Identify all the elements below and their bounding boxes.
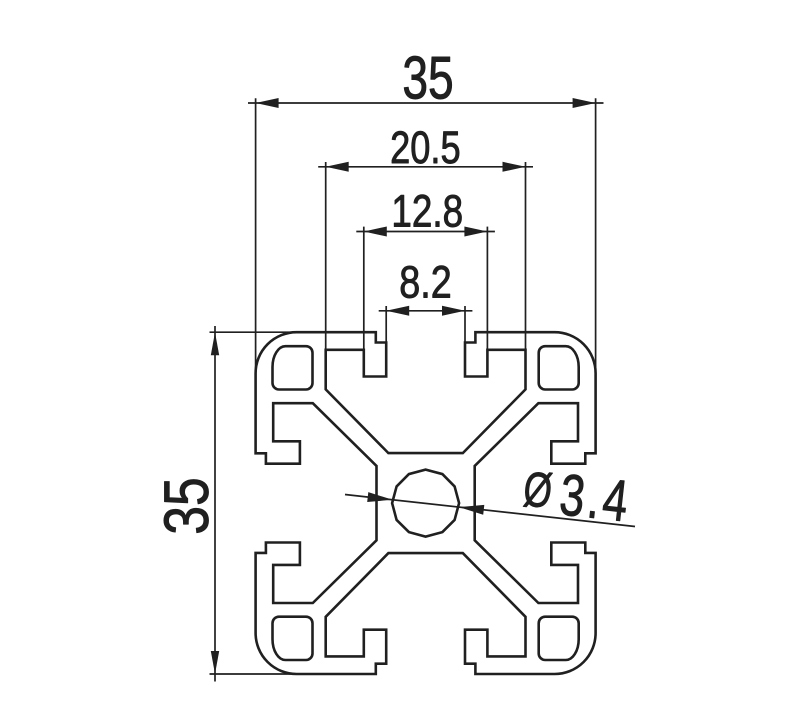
leader line dia 3.4 — [345, 495, 635, 527]
dim line 35 left — [214, 326, 216, 682]
arrow 12.8 right — [464, 227, 487, 237]
dim line 35 top — [248, 102, 604, 104]
svg-text:12.8: 12.8 — [391, 186, 463, 236]
ext line 35 top left — [255, 98, 257, 374]
arrow dia right — [459, 505, 484, 515]
svg-text:35: 35 — [402, 46, 453, 112]
corner hole bottom-left — [273, 617, 313, 660]
arrow 35 left bottom — [211, 651, 219, 674]
svg-text:3.4: 3.4 — [557, 463, 635, 536]
arrow 20.5 right — [503, 162, 526, 172]
svg-text:35: 35 — [152, 477, 222, 534]
arrow 20.5 left — [326, 162, 349, 172]
dim line 8.2 — [379, 310, 473, 312]
dim line 20.5 — [318, 166, 533, 168]
arrow 8.2 left — [386, 306, 409, 316]
arrow dia left — [367, 492, 392, 502]
ext line 35 top right — [595, 98, 597, 374]
profile outline — [256, 332, 596, 674]
corner hole top-left — [273, 346, 313, 389]
ext line 12.8 right — [486, 227, 488, 351]
svg-text:20.5: 20.5 — [390, 122, 461, 173]
arrow 35 top right — [573, 98, 596, 108]
svg-text:8.2: 8.2 — [399, 256, 451, 307]
ext line 20.5 right — [525, 162, 527, 350]
ext line 20.5 left — [325, 162, 327, 350]
ext line 35 left top — [210, 331, 301, 333]
svg-text:Ø: Ø — [521, 462, 555, 519]
ext line 35 left bottom — [210, 673, 301, 675]
arrow 35 left top — [211, 332, 219, 355]
corner hole top-right — [539, 346, 579, 389]
ext line 8.2 right — [464, 306, 466, 344]
arrow 12.8 left — [364, 227, 387, 237]
ext line 12.8 left — [363, 227, 365, 351]
corner hole bottom-right — [539, 617, 579, 660]
arrow 8.2 right — [442, 306, 465, 316]
arrow 35 top left — [256, 98, 279, 108]
ext line 8.2 left — [385, 306, 387, 344]
dim line 12.8 — [356, 231, 495, 233]
center hole — [392, 470, 459, 537]
